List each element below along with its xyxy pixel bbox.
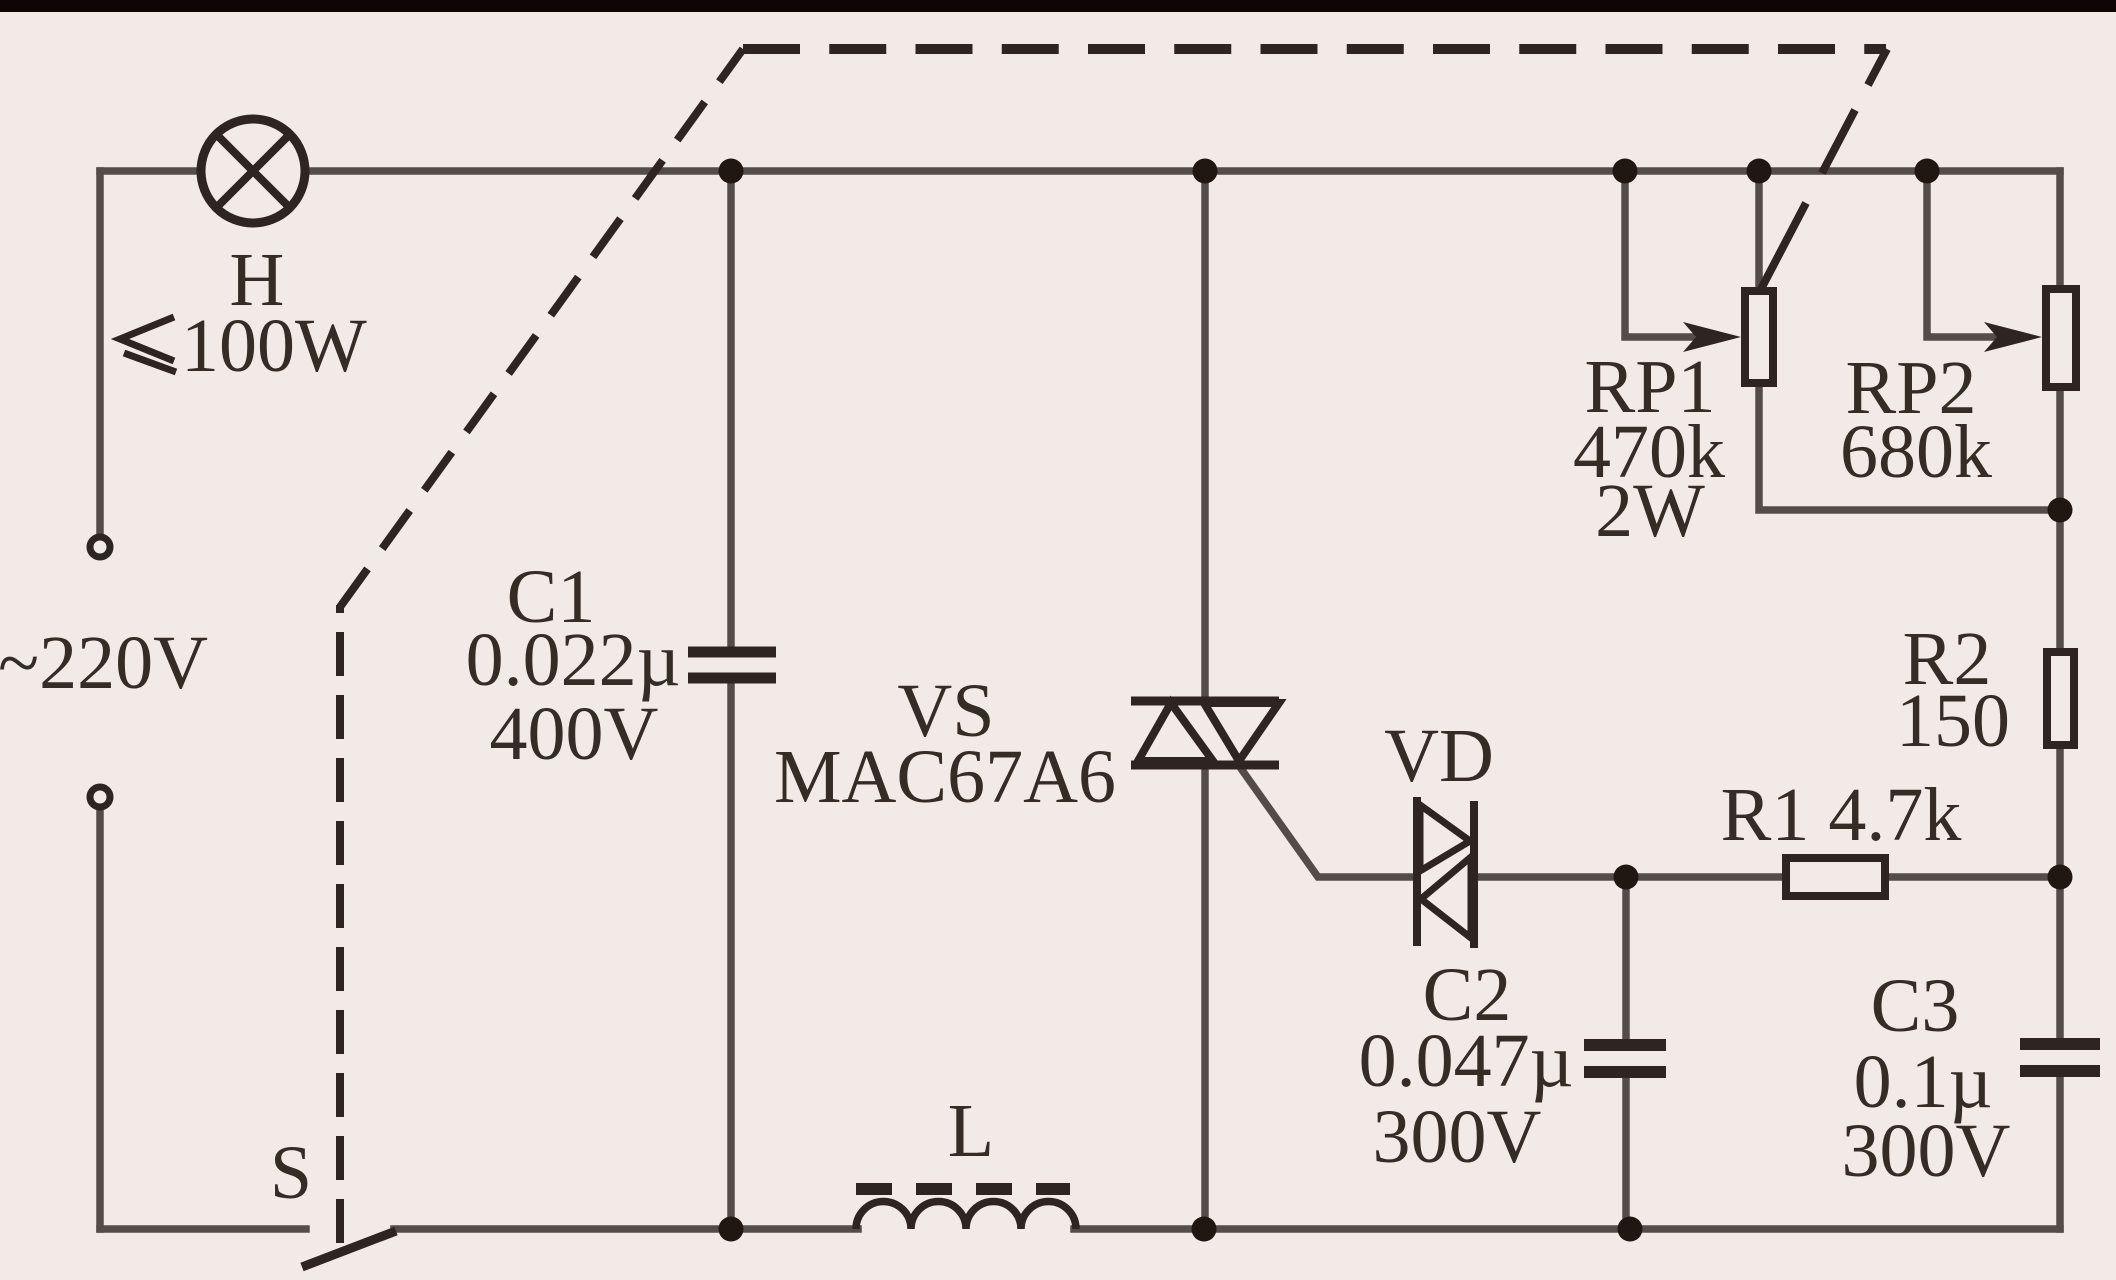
- wire: RP2 wiper branch: [1927, 171, 1994, 337]
- AC source terminal upper: [90, 537, 110, 557]
- RP2 wiper arrow head: [1984, 322, 2042, 352]
- svg-text:VD: VD: [1384, 714, 1494, 798]
- inductor L coil: [856, 1201, 1076, 1229]
- wire: triac gate lead: [1242, 770, 1414, 877]
- mechanical link: dashed diagonal to RP1: [1761, 49, 1887, 289]
- svg-text:300V: 300V: [1842, 1109, 2011, 1193]
- AC source terminal lower: [90, 787, 110, 807]
- svg-text:0.022µ: 0.022µ: [466, 618, 681, 702]
- wire: left rail upper (lamp down to source terminal): [96, 171, 104, 536]
- mechanical link: dashed horizontal top: [743, 44, 1886, 54]
- label lamp rating ≤100W: [120, 304, 367, 388]
- svg-text:100W: 100W: [181, 304, 367, 388]
- svg-text:0.047µ: 0.047µ: [1359, 1019, 1574, 1103]
- wire: bottom-left segment to switch contact: [100, 1225, 306, 1233]
- capacitor C2: [1584, 1045, 1666, 1072]
- wire: left rail lower (source terminal down to bottom corner): [96, 809, 104, 1229]
- potentiometer RP1 body: [1745, 291, 1773, 383]
- capacitor C3: [2020, 1044, 2100, 1071]
- svg-text:MAC67A6: MAC67A6: [774, 735, 1116, 819]
- lamp H: [201, 119, 305, 223]
- wire: RP1 wiper branch: [1625, 171, 1692, 337]
- potentiometer RP2 body: [2046, 289, 2076, 387]
- junction node: bottom rail / C2: [1618, 1217, 1643, 1242]
- wire: bottom rail right of inductor: [1074, 1225, 2060, 1233]
- wire: triac branch vertical: [1201, 171, 1209, 1229]
- svg-text:S: S: [270, 1131, 312, 1215]
- switch S blade: [302, 1231, 396, 1267]
- resistor R1: [1786, 858, 1885, 896]
- wire: top rail from lamp to right corner: [305, 167, 2060, 175]
- junction node: top rail / RP1 wiper: [1613, 159, 1638, 184]
- top black border bar: [0, 0, 2116, 12]
- svg-text:~220V: ~220V: [0, 621, 208, 705]
- wire: bottom rail from switch to right corner: [394, 1225, 858, 1233]
- wire: C1 branch vertical: [727, 171, 735, 1229]
- wire: R1 to right rail: [1889, 873, 2060, 881]
- svg-text:150: 150: [1896, 679, 2010, 763]
- wire: top rail left of lamp: [100, 167, 201, 175]
- wire: right rail vertical: [2056, 171, 2064, 1229]
- mechanical link: dashed diagonal lower-left: [340, 49, 743, 607]
- junction node: right rail / R1: [2048, 865, 2073, 890]
- junction node: top rail / C1: [719, 159, 744, 184]
- wire: RP1 body branch and bottom link to right rail: [1759, 171, 2060, 510]
- junction node: top rail / RP2 wiper: [1915, 159, 1940, 184]
- capacitor C1: [688, 652, 776, 678]
- triac VS: [1131, 701, 1279, 765]
- junction node: bottom rail / C1: [719, 1217, 744, 1242]
- junction node: top rail / triac: [1193, 159, 1218, 184]
- diac VD: [1417, 797, 1474, 948]
- inductor L core (dashed): [856, 1183, 1070, 1195]
- junction node: bottom rail / triac: [1192, 1217, 1217, 1242]
- wire: C2 branch vertical: [1622, 877, 1630, 1229]
- resistor R2: [2047, 652, 2074, 745]
- junction node: top rail / RP1 body: [1747, 159, 1772, 184]
- junction node: right rail / RP bottoms: [2048, 498, 2073, 523]
- junction node: gate wire / C2: [1614, 865, 1639, 890]
- mechanical link: dashed vertical at switch: [336, 605, 344, 1243]
- svg-text:400V: 400V: [490, 692, 659, 776]
- svg-text:2W: 2W: [1595, 469, 1705, 553]
- svg-text:L: L: [948, 1089, 994, 1173]
- RP1 wiper arrow head: [1683, 322, 1741, 352]
- wire: gate node to R1: [1477, 873, 1782, 881]
- svg-text:680k: 680k: [1840, 410, 1992, 494]
- svg-text:300V: 300V: [1373, 1095, 1542, 1179]
- svg-text:R1 4.7k: R1 4.7k: [1721, 773, 1962, 857]
- svg-text:C3: C3: [1871, 964, 1960, 1048]
